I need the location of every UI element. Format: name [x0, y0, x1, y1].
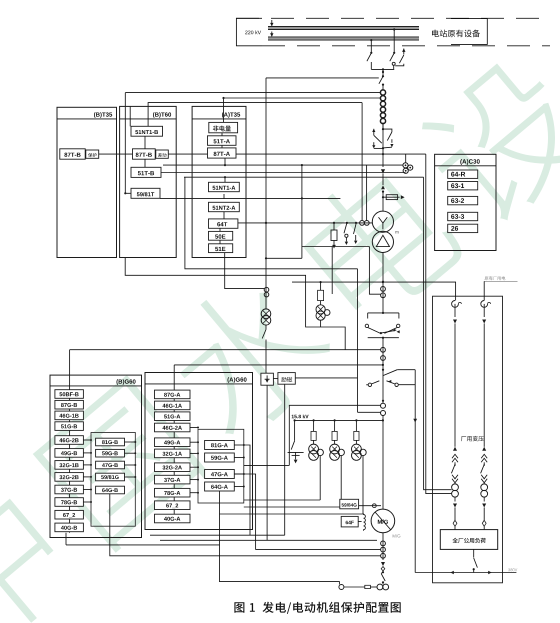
junction dot W-PT2: [320, 281, 322, 283]
wire T60 inner stub: [129, 106, 131, 126]
relay 87T-B left: [60, 149, 85, 159]
transfer switch left: [367, 313, 369, 319]
wire tap y412.3: [358, 411, 381, 413]
wire PT3 sec h: [220, 513, 364, 515]
relay 78G-B: [55, 498, 84, 507]
box (B)T60: [120, 106, 177, 257]
junction dot W-main: [382, 281, 384, 283]
breaker QF main: [382, 75, 384, 77]
transfer switch blade: [380, 332, 382, 334]
relay 64G-B: [96, 486, 125, 494]
wire 51NT bus drop y268.8: [185, 177, 358, 269]
wire box link: [273, 378, 278, 380]
relay 32G-2A: [155, 463, 191, 472]
wire 81G-A drop x250: [244, 445, 250, 535]
relay 64T: [209, 219, 238, 228]
neutral grounding transformer: [377, 584, 383, 590]
neutral wire: [344, 586, 365, 588]
relay 78G-A: [155, 488, 191, 497]
PT branch 2: [334, 420, 336, 431]
PT2 branch fuse: [320, 282, 322, 290]
wire 87T-A bottom bus y165: [163, 164, 403, 166]
PT branch circles: [264, 287, 269, 292]
stub 32G-1A: [190, 452, 198, 454]
generator M/G: [371, 509, 395, 533]
stub 37G-A: [190, 479, 198, 481]
box (A)T35: [192, 106, 246, 257]
relay 46G-1B: [55, 411, 84, 420]
relay 51T-A: [208, 136, 237, 146]
caption: [234, 602, 400, 614]
wire PT2 sec h: [244, 506, 341, 508]
relay 51E: [209, 244, 233, 253]
dashed boundary top: [236, 17, 550, 19]
wire 59/64G link: [359, 505, 381, 507]
wire 15.8kV header: [295, 419, 383, 421]
wire cross-protection bus y154: [60, 153, 426, 155]
junction dot wireA: [224, 164, 226, 166]
wire bundle y535.2: [150, 534, 285, 536]
wire bundle y540.3: [160, 539, 377, 541]
wire 51E drop x224.7: [225, 253, 265, 289]
CT pair 289: [381, 287, 386, 292]
relay 46G-1A: [155, 401, 191, 410]
label station equipment: [432, 30, 480, 38]
wire main lower1: [382, 253, 384, 313]
station bottom wire: [415, 572, 516, 574]
relay 32G-1B: [55, 461, 84, 470]
stub 32G-1B: [83, 464, 91, 466]
wire CT tap1 y92.6: [125, 92, 380, 94]
wire wireC drop x426.4: [426, 154, 452, 494]
earthing switch branch: [294, 420, 296, 440]
label 220 kV: [245, 30, 261, 34]
relay 40G-B: [55, 523, 84, 532]
wire CT secondary x362.1: [361, 103, 363, 221]
wire CTpair up x366.6: [366, 165, 368, 221]
relay 63-1: [448, 182, 478, 190]
transfer switch frame bottom: [368, 337, 399, 339]
wire v255 ext: [255, 540, 257, 549]
wire main lower2: [382, 338, 384, 370]
wire G60B top drop x69.6: [69, 350, 71, 391]
wire y465.4: [244, 464, 289, 466]
relay 51NT1-A: [209, 182, 240, 191]
watermark: [0, 478, 80, 623]
box (B)T35: [57, 107, 117, 257]
relay 47G-B: [96, 461, 125, 469]
wire ne-51T link: [221, 133, 223, 136]
station bracket: [451, 19, 487, 45]
disconnector pair right: [383, 129, 392, 132]
load box switch: [473, 549, 475, 557]
junction dot wireB: [224, 176, 226, 178]
wire CT tap3 y102.6: [148, 103, 362, 127]
stub 78G-A: [190, 492, 198, 494]
earth switch2: [354, 224, 357, 234]
wire CT294 L: [369, 247, 380, 295]
relay 51G-A: [155, 412, 191, 421]
gen link circle: [372, 504, 376, 508]
relay 50BF-B: [55, 390, 84, 399]
relay nonelectric: [209, 122, 238, 132]
relay 67_2: [55, 510, 84, 519]
wire main lower4: [382, 416, 384, 510]
relay 50E: [209, 231, 233, 240]
relay 49G-A: [155, 438, 191, 447]
wire 59/81T right y198.4: [160, 197, 340, 199]
stub 32G-2B: [83, 476, 91, 478]
relay 87T-A: [208, 148, 237, 158]
relay 63-3: [448, 212, 478, 220]
gen CT stack: [381, 541, 386, 546]
station load box: [440, 530, 497, 550]
junction dot tap2/tap3: [222, 97, 224, 99]
stub 46G-2A: [190, 427, 198, 429]
label 15.8 kV: [292, 415, 309, 419]
wire PT1 sec h: [244, 499, 320, 501]
wire 64G-B drop: [110, 494, 381, 556]
junction dots pair: [382, 128, 384, 130]
junction dot 59/81T: [124, 192, 126, 194]
junction dot header: [382, 419, 384, 421]
wire x357.5 drop: [357, 269, 359, 413]
station feeder 2: [481, 301, 488, 308]
wire 64T to transformer y222.9: [238, 222, 373, 224]
disconnector QS1 bus2: [370, 40, 372, 52]
gray label 380V: [508, 568, 517, 571]
transformer T winding1: [372, 211, 393, 232]
relay 51G-B: [55, 422, 84, 431]
box (B)G60: [50, 375, 142, 537]
wire 51NT1-A bus y177.2: [184, 176, 424, 178]
PT branch 1: [313, 420, 315, 431]
CT pair 405: [381, 403, 386, 408]
wye symbol: [379, 217, 388, 223]
changeover2 left: [368, 383, 371, 386]
wire right feeder W y282.1: [292, 281, 456, 283]
relay 59G-B: [96, 449, 125, 457]
PT2 branch out: [320, 320, 322, 327]
wire CT tap2 y98: [224, 98, 381, 122]
transformer T winding2: [372, 231, 393, 252]
relay 46G-2B: [55, 436, 84, 445]
wire T60 drop y275.3: [125, 258, 345, 350]
junction dot y258.3: [265, 257, 267, 259]
wire PT1 sec: [319, 456, 321, 500]
changeover2 top blade: [382, 369, 384, 371]
wire G60B CT tap y349.7: [70, 349, 381, 351]
label station transformer: [461, 436, 484, 441]
station feeder 1: [452, 301, 459, 308]
relay box 64F: [341, 516, 358, 527]
gray feeder label: [484, 280, 517, 282]
wire y246.5: [302, 246, 370, 248]
disconnector QS2 bus1: [393, 30, 395, 53]
wire station feed x415.2: [414, 370, 416, 573]
relay 87G-B: [55, 400, 84, 409]
relay 32G-1A: [155, 449, 191, 458]
CT pair transformer: [360, 221, 365, 226]
diamond below gen: [381, 567, 385, 571]
relay 26: [448, 224, 478, 232]
junction dot y364.9: [382, 364, 384, 366]
wire tap y405.3: [289, 405, 380, 465]
neutral fuse: [365, 585, 371, 588]
field coil: [364, 514, 366, 531]
relay 51T-B: [131, 167, 161, 177]
wire B left col spine: [69, 391, 71, 533]
relay 47G-A: [205, 470, 235, 479]
excitation box: [278, 373, 295, 385]
busbar II: [268, 37, 419, 40]
delta symbol: [376, 235, 389, 246]
wire 50E-51E link: [219, 240, 221, 244]
arrow main: [381, 169, 385, 173]
stub 46G-2B: [83, 439, 91, 441]
relay 63-2: [448, 196, 478, 204]
wire excit right y377.9: [295, 377, 357, 379]
PT double winding: [261, 309, 271, 319]
relay 32G-2B: [55, 473, 84, 482]
label M/G gray: [393, 534, 401, 537]
earth switch1: [344, 223, 347, 233]
station box: [433, 296, 503, 583]
wire 64F coil: [358, 521, 361, 523]
relay 87T-B left tag: [86, 150, 99, 158]
wire A-col connector v225a: [224, 158, 226, 165]
busbar I: [268, 27, 419, 30]
wire main upper: [382, 69, 384, 76]
feeder2 drop: [483, 281, 485, 300]
surge arrester FV: [333, 223, 335, 230]
wire 64G-A drop x219.5: [220, 491, 340, 585]
relay 64-R: [448, 170, 478, 178]
stub 49G-A: [190, 441, 198, 443]
PT2 branch winding: [316, 305, 325, 314]
wire arrester drop x267.1: [266, 385, 268, 540]
CT pair 349: [381, 347, 386, 352]
wire 51T bus y172.5: [161, 172, 406, 174]
arrester box: [261, 373, 274, 385]
wire A left col spine: [173, 392, 175, 523]
CT stack: [380, 90, 385, 95]
wire PT2 sec: [340, 456, 342, 507]
disconnector pair left: [372, 129, 375, 132]
relay 51NT2-A: [209, 202, 240, 211]
wire y258.3: [266, 257, 302, 259]
relay 64G-A: [205, 482, 235, 491]
transfer switch right: [398, 313, 400, 319]
wire drop x301.9: [301, 165, 303, 258]
cluster stub: [405, 154, 407, 163]
relay 46G-2A: [155, 423, 191, 432]
wire changeover right2: [398, 384, 415, 386]
wire main mid: [382, 123, 384, 168]
disconnector QS3: [402, 49, 405, 52]
label m: [395, 231, 398, 234]
stub 49G-B: [83, 452, 91, 454]
stub 37G-B: [83, 489, 91, 491]
box (A)C30: [435, 154, 496, 250]
relay box 59/64G: [340, 499, 359, 509]
wire changeover right1: [397, 369, 415, 371]
inner frame A: [198, 429, 244, 503]
wire gen CT tap y549.6: [256, 549, 381, 551]
wire 87T-51T link: [144, 136, 146, 149]
wire G60A CT tap y364.9: [174, 364, 383, 366]
wire left switch feed y77.9: [266, 77, 379, 79]
wire x332 drop: [331, 247, 333, 295]
relay 37G-B: [55, 485, 84, 494]
wire 40G-B drop: [65, 533, 67, 545]
feeder1 drop: [455, 282, 457, 301]
relay 59G-A: [205, 453, 235, 462]
cluster circles: [403, 163, 408, 168]
dashed boundary bottom: [262, 45, 550, 47]
relay 81G-B: [96, 438, 125, 446]
transfer switch frame top: [368, 312, 399, 314]
PT branch 3: [355, 420, 357, 431]
relay 40G-A: [155, 514, 191, 523]
relay 37G-A: [155, 475, 191, 484]
wire bundle y544.9: [66, 544, 220, 546]
relay 49G-B: [55, 449, 84, 458]
relay 59/81T: [131, 188, 160, 198]
relay 81G-A: [205, 441, 235, 450]
PT switch: [265, 325, 267, 329]
junction bar: [371, 68, 394, 70]
relay 87G-A: [155, 390, 191, 399]
wire main lower3: [382, 370, 384, 404]
triangle main: [381, 185, 385, 189]
busbar I arrow: [271, 20, 273, 26]
stub 32G-2A: [190, 466, 198, 468]
fuse arrester main: [383, 196, 400, 198]
relay 87T-B mid tag: [156, 150, 169, 158]
wire tap1 drop x125.3: [125, 93, 131, 194]
changeover2 right: [395, 383, 398, 386]
relay 51NT1-B: [131, 126, 163, 136]
wire 47G-A drop x255.6: [234, 474, 255, 540]
wire PT branch left x266: [265, 78, 267, 309]
stub 78G-B: [83, 501, 91, 503]
arrow station feed: [413, 419, 417, 423]
wire PT3 sec: [362, 456, 364, 514]
wire A-col connector v225b: [224, 177, 226, 182]
wire excite drop x284.7: [284, 384, 286, 535]
relay 87T-B mid: [133, 149, 156, 159]
wire wireA drop x423.6: [424, 177, 452, 490]
relay 59/81G: [96, 473, 125, 481]
arrow below gen: [381, 562, 385, 566]
wire 51NT2-64T link: [223, 212, 225, 219]
relay 67_2: [155, 501, 191, 510]
wire below gen: [382, 533, 384, 560]
busbar II arrow: [271, 32, 273, 37]
220kV bracket: [236, 18, 262, 46]
inner frame B: [91, 433, 135, 527]
wire G60A top drop x174.2: [173, 365, 175, 392]
neutral switch: [381, 572, 383, 573]
neutral earthing circle: [339, 585, 344, 590]
box (A)G60: [145, 373, 253, 530]
